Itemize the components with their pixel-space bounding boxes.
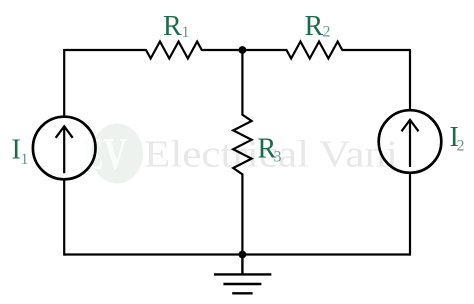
- watermark logo circle: [91, 124, 143, 184]
- current source I2 arrow: [402, 120, 419, 167]
- wire bottom: [64, 253, 410, 255]
- svg-text:1: 1: [182, 24, 190, 41]
- wire top with resistors R1 R2: [64, 42, 410, 59]
- svg-text:2: 2: [457, 138, 465, 155]
- svg-text:2: 2: [323, 24, 331, 41]
- svg-text:R: R: [305, 11, 324, 42]
- label I1: [12, 135, 29, 169]
- node bottom junction: [239, 251, 247, 259]
- svg-text:EV: EV: [82, 128, 127, 179]
- label I2: [450, 122, 465, 155]
- wire left lower: [63, 179, 65, 255]
- current source I1 circle: [33, 117, 96, 180]
- svg-text:1: 1: [21, 151, 29, 168]
- ground: [214, 255, 271, 294]
- wire right upper: [409, 49, 411, 110]
- current source I1 arrow: [56, 126, 73, 173]
- wire right lower: [409, 173, 411, 256]
- label R1: [163, 11, 190, 42]
- node top junction: [239, 46, 247, 54]
- label R2: [305, 11, 331, 42]
- label R3: [258, 134, 282, 166]
- wire middle with resistor R3: [233, 50, 251, 255]
- svg-text:I: I: [12, 135, 21, 166]
- current source I2 circle: [379, 110, 442, 173]
- svg-text:R: R: [163, 11, 182, 42]
- svg-text:3: 3: [274, 149, 282, 166]
- wire left upper: [63, 49, 65, 117]
